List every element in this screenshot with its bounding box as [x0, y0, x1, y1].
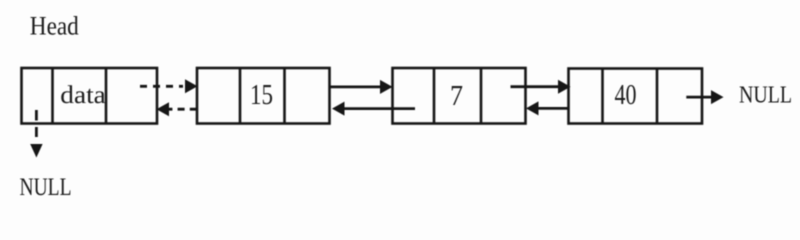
svg-text:7: 7: [450, 80, 463, 112]
svg-text:40: 40: [615, 79, 637, 111]
svg-text:NULL: NULL: [20, 172, 72, 201]
svg-text:data: data: [60, 80, 106, 109]
svg-text:Head: Head: [30, 11, 79, 40]
svg-text:NULL: NULL: [739, 83, 792, 109]
svg-text:15: 15: [250, 79, 273, 111]
